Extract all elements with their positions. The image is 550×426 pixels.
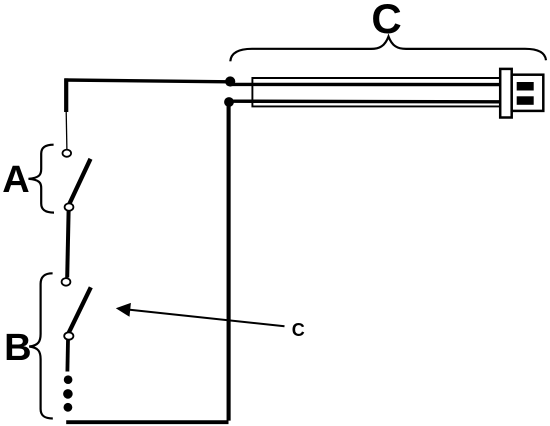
wire W4 between switch A and switch B (67, 211, 68, 278)
switch B blade (69, 287, 91, 333)
arrow head (116, 303, 131, 317)
cable C outer sheath rectangle (252, 78, 501, 106)
connector collar (500, 69, 512, 118)
node J2 junction dot lower (224, 97, 234, 107)
brace for B (left) (29, 273, 53, 418)
conductor wire lower of cable C (229, 99, 501, 103)
switch B top contact (62, 278, 71, 286)
continuation dot 3 (64, 403, 73, 412)
connector pin 1 (517, 82, 534, 91)
node J1 junction dot upper (225, 76, 235, 86)
wire W1 top horizontal (65, 80, 230, 82)
svg-text:B: B (4, 327, 31, 369)
wire W2 left vertical upper (64, 78, 68, 112)
wire W3 thin lead to switch A (65, 112, 68, 149)
switch B bottom contact (64, 332, 73, 339)
svg-text:C: C (292, 320, 305, 340)
switch A blade (69, 159, 90, 204)
arrow shaft pointing to switch B blade (130, 310, 285, 327)
switch A top contact (63, 150, 72, 157)
switch A bottom contact (65, 203, 74, 210)
conductor wire upper of cable C (230, 83, 501, 87)
wire W6 bottom horizontal (66, 420, 228, 424)
wire W7 right vertical (227, 102, 231, 421)
continuation dot 2 (63, 389, 73, 399)
connector pin 2 (517, 96, 534, 105)
svg-text:C: C (371, 0, 401, 42)
brace for C (overbrace) (230, 37, 546, 62)
brace for A (left) (29, 145, 55, 213)
continuation dot 1 (64, 375, 73, 384)
connector plug body (512, 75, 544, 111)
wire W5 below switch B (66, 340, 70, 372)
svg-text:A: A (2, 159, 29, 201)
